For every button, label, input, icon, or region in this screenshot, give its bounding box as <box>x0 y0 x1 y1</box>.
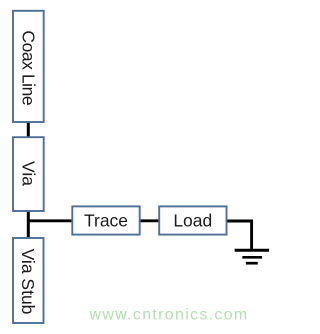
wire coax-via <box>27 121 30 138</box>
wire via to via-stub (through junction) <box>27 210 30 239</box>
svg-text:Coax Line: Coax Line <box>18 30 38 105</box>
wire trace-load <box>140 219 160 222</box>
svg-text:Trace: Trace <box>84 211 128 231</box>
box Trace <box>72 206 139 234</box>
svg-text:Load: Load <box>173 211 212 231</box>
wire load to ground corner <box>226 221 252 250</box>
box Load <box>159 206 226 234</box>
box Via Stub <box>13 238 44 323</box>
svg-text:www.cntronics.com: www.cntronics.com <box>89 306 249 323</box>
svg-text:Via Stub: Via Stub <box>18 249 38 315</box>
ground bar 3 <box>246 262 258 265</box>
box Via <box>13 137 44 211</box>
ground bar 1 <box>235 249 270 252</box>
svg-text:Via: Via <box>18 161 38 186</box>
box Coax Line <box>13 11 44 122</box>
wire junction to trace <box>27 219 73 222</box>
ground bar 2 <box>242 256 262 259</box>
